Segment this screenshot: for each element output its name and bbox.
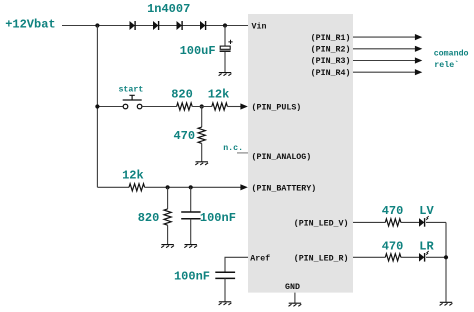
wire pin_r3 arrow line — [353, 60, 415, 62]
arrow pin_r4 — [415, 69, 422, 75]
capacitor C2 100nF — [181, 212, 200, 219]
wire 100uF bottom lead — [224, 52, 226, 72]
wire 820 battery bottom lead — [167, 225, 169, 244]
wire 100nF battery top lead — [190, 187, 192, 212]
wire 470 to LED LR — [401, 256, 419, 258]
node junction 820/12k/470 — [200, 104, 204, 108]
wire Aref cap bottom lead — [224, 278, 226, 301]
diode D4 — [200, 21, 205, 30]
node junction puls row — [95, 104, 99, 108]
wire led_v to resistor — [353, 221, 385, 223]
svg-text:(PIN_R1): (PIN_R1) — [311, 33, 351, 43]
resistor R5 820 — [164, 209, 171, 225]
wire 470 top lead — [201, 107, 203, 128]
capacitor C1 100uF — [220, 46, 230, 49]
svg-text:470: 470 — [382, 204, 404, 218]
svg-text:470: 470 — [382, 239, 404, 253]
wire 100uF top lead — [224, 26, 226, 47]
svg-text:(PIN_BATTERY): (PIN_BATTERY) — [252, 183, 317, 193]
wire Aref lead — [225, 257, 248, 272]
svg-text:Vin: Vin — [252, 22, 267, 32]
wire 820 to 12k — [192, 106, 212, 108]
svg-text:1n4007: 1n4007 — [147, 2, 190, 16]
node junction LED rows — [444, 255, 448, 259]
diode D2 — [153, 21, 158, 30]
wire LED common vertical — [445, 222, 447, 302]
resistor R1 820 — [177, 103, 193, 110]
wire 470 bottom lead — [201, 143, 203, 161]
wire 820 battery top lead — [167, 187, 169, 209]
svg-text:(PIN_R4): (PIN_R4) — [311, 68, 351, 78]
wire 12k to pin puls — [227, 106, 241, 108]
wire 470 to LED LV — [401, 221, 419, 223]
svg-text:n.c.: n.c. — [223, 144, 243, 153]
IC block U1 (microcontroller) — [248, 14, 353, 293]
resistor R6 470 — [385, 219, 401, 226]
svg-text:(PIN_LED_V): (PIN_LED_V) — [294, 218, 349, 228]
node junction at 100uF branch — [223, 23, 227, 27]
svg-text:100uF: 100uF — [180, 44, 216, 58]
svg-text:Aref: Aref — [250, 253, 270, 263]
node junction 100nF branch — [189, 185, 193, 189]
svg-text:rele`: rele` — [434, 60, 459, 70]
svg-text:820: 820 — [138, 211, 160, 225]
wire battery row left — [97, 186, 129, 188]
wire button to R 820 — [142, 106, 177, 108]
ground for Aref cap — [219, 302, 232, 305]
node +12V junction at main vertical — [95, 23, 99, 27]
wire puls row left — [97, 106, 123, 108]
wire pin_r4 arrow line — [353, 71, 415, 73]
resistor R7 470 — [385, 254, 401, 261]
wire 100nF battery bottom lead — [190, 219, 192, 245]
wire 12k to junctions — [145, 186, 241, 188]
resistor R2 12k — [212, 103, 228, 110]
svg-text:GND: GND — [285, 283, 300, 292]
arrow into PIN_BATTERY — [240, 184, 247, 190]
svg-text:LR: LR — [419, 239, 434, 253]
svg-text:820: 820 — [171, 87, 193, 101]
arrow pin_r1 — [415, 34, 422, 40]
wire pin_r2 arrow line — [353, 48, 415, 50]
wire main vertical bus — [96, 26, 98, 188]
svg-text:12k: 12k — [208, 87, 230, 101]
LED LV — [419, 218, 424, 227]
svg-text:+12Vbat: +12Vbat — [5, 17, 55, 31]
arrow into PIN_PULS — [240, 103, 247, 109]
diode D1 — [130, 21, 135, 30]
resistor R3 470 — [198, 127, 205, 143]
svg-text:12k: 12k — [122, 169, 144, 183]
svg-text:(PIN_PULS): (PIN_PULS) — [252, 103, 302, 113]
wire LV to right vertical — [426, 221, 446, 223]
svg-text:470: 470 — [173, 129, 195, 143]
wire analog stub — [237, 152, 248, 154]
svg-text:start: start — [118, 86, 143, 95]
ground for 100uF — [219, 73, 232, 76]
arrow pin_r3 — [415, 57, 422, 63]
arrow pin_r2 — [415, 46, 422, 52]
svg-text:(PIN_R2): (PIN_R2) — [311, 45, 351, 55]
ground for LEDs — [440, 302, 453, 305]
svg-text:(PIN_R3): (PIN_R3) — [311, 56, 351, 66]
pushbutton SW1 start — [123, 104, 128, 109]
resistor R4 12k — [129, 184, 145, 191]
svg-text:(PIN_LED_R): (PIN_LED_R) — [294, 253, 349, 263]
ground for 100nF battery — [184, 245, 197, 248]
svg-text:(PIN_ANALOG): (PIN_ANALOG) — [252, 152, 312, 162]
wire pin_r1 arrow line — [353, 36, 415, 38]
wire GND lead — [294, 293, 296, 303]
LED LR — [419, 253, 424, 262]
svg-text:LV: LV — [419, 204, 434, 218]
svg-text:comando: comando — [434, 48, 469, 58]
svg-text:100nF: 100nF — [174, 269, 210, 283]
ground for 820 battery — [161, 245, 174, 248]
svg-text:100nF: 100nF — [200, 211, 236, 225]
capacitor C3 100nF Aref — [215, 272, 235, 278]
wire +12V rail — [62, 25, 248, 27]
wire led_r to resistor — [353, 256, 385, 258]
ground for GND pin — [289, 303, 302, 306]
ground for 470 — [195, 162, 208, 165]
node junction 820 branch — [166, 185, 170, 189]
diode D3 — [177, 21, 182, 30]
wire LR to right vertical — [426, 256, 446, 258]
